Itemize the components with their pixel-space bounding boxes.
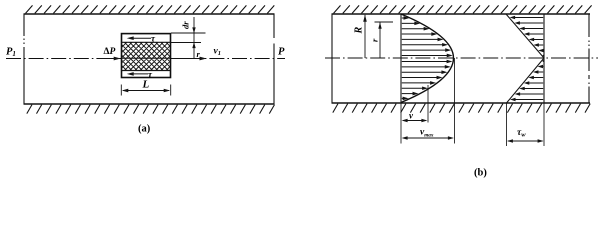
svg-text:R: R [354,27,365,35]
top wall hatching (a) [26,5,275,13]
svg-text:(a): (a) [138,124,151,135]
pipe top wall (b) [332,13,591,15]
fluid element body [122,34,171,78]
shear arrow bottom (tau) [130,73,148,75]
dimension L extension lines [121,85,170,96]
svg-text:L: L [142,79,150,91]
extension line profile base [400,103,402,144]
svg-text:(b): (b) [474,168,487,179]
shear arrow top (tau) [130,37,151,39]
fluid element crosshatch [122,42,171,70]
velocity arrow v1 [172,58,200,60]
svg-text:P: P [278,47,285,58]
centerline (a) [6,58,285,60]
dimension vmax [403,137,453,139]
shear profile envelope [506,14,544,103]
shear arrows [510,16,545,102]
pipe bottom wall (a) [24,103,275,105]
dimension r tick (b) [375,21,394,23]
dimension v [403,120,426,122]
pipe right section line (b) [588,14,590,103]
pipe bottom wall (b) [332,102,591,104]
shear profile axis line [543,14,545,103]
extension line tau axis [543,103,545,146]
centerline across element [122,57,171,59]
centerline (b) [325,57,598,59]
pipe inlet section line (a) [23,14,25,104]
svg-text:ΔP: ΔP [104,47,116,57]
svg-text:dr: dr [181,21,191,29]
pipe top wall (a) [24,13,275,15]
dimension r line (b) [379,22,381,58]
pipe outlet section line (a) [273,14,275,104]
pressure arrow dP [99,58,115,60]
bottom wall hatching (b) [333,104,590,113]
velocity profile parabola [401,14,454,103]
extension line vmax [454,58,456,144]
extension line tau wall [506,103,508,146]
bottom wall hatching (a) [27,105,275,114]
dimension tau_w [508,140,543,142]
dimension R line [364,15,366,58]
dimension r line [193,17,195,59]
extension line v [427,85,429,123]
crosshatch area borders [122,42,171,70]
dimension L line [123,90,169,92]
top wall hatching (b) [334,5,592,13]
pipe left section line (b) [331,14,333,103]
dimension dr ticks [171,33,206,43]
velocity arrows [402,16,453,100]
velocity profile base line [400,14,402,103]
